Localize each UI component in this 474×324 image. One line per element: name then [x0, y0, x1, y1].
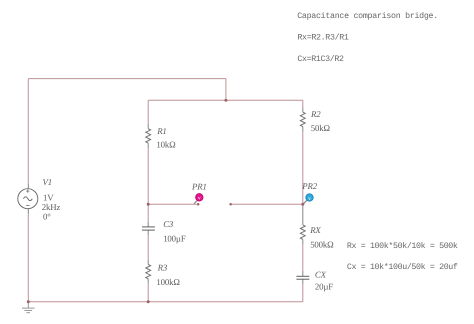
pin lead RX bottom	[302, 239, 304, 244]
svg-text:1V: 1V	[43, 193, 54, 203]
wire right branch RX to CX	[302, 245, 304, 272]
junction node left mid	[147, 203, 150, 206]
junction node ground rail left	[27, 300, 30, 303]
pin PR1 wire end	[197, 203, 200, 206]
resistor R3	[146, 264, 151, 278]
wire vertical connector into bridge top node	[225, 79, 227, 101]
svg-text:V1: V1	[43, 177, 52, 187]
pin lead R1 top	[147, 124, 149, 129]
pin PR2 wire end	[229, 203, 232, 206]
svg-text:100kΩ: 100kΩ	[156, 277, 180, 287]
svg-text:R1: R1	[156, 126, 166, 136]
svg-text:Cx=R1C3/R2: Cx=R1C3/R2	[297, 54, 344, 64]
probe PR2	[304, 194, 314, 204]
svg-text:Capacitance comparison bridge.: Capacitance comparison bridge.	[297, 11, 438, 21]
resistor R1	[146, 129, 151, 143]
pin lead CX bottom	[302, 279, 304, 284]
wire bridge top rail	[148, 99, 303, 101]
wire left branch segment C3 to R3	[147, 235, 149, 259]
wire right branch CX to bottom rail	[302, 284, 304, 301]
capacitor CX	[296, 276, 309, 279]
probe PR1	[194, 194, 203, 204]
svg-text:20µF: 20µF	[315, 282, 333, 292]
ground	[22, 302, 35, 313]
capacitor C3	[142, 227, 155, 230]
wire left vertical lower (source bottom to ground rail)	[27, 214, 29, 302]
resistor RX	[300, 225, 305, 239]
pin lead R3 top	[147, 259, 149, 264]
svg-text:10kΩ: 10kΩ	[156, 139, 176, 149]
junction node ground rail R3	[147, 300, 150, 303]
wire mid node to PR1 pin	[148, 203, 198, 205]
voltage source V1	[18, 189, 38, 209]
wire left branch segment mid node to C3	[147, 204, 149, 221]
svg-text:50kΩ: 50kΩ	[311, 123, 331, 133]
svg-text:500kΩ: 500kΩ	[310, 239, 334, 249]
pin lead RX top from mid junction	[302, 204, 304, 225]
wire left branch segment R1 to mid node	[147, 148, 149, 204]
wire right branch above R2	[302, 100, 304, 107]
junction node right mid	[301, 203, 304, 206]
pin lead V1 top	[27, 184, 29, 189]
svg-text:C3: C3	[163, 219, 174, 229]
wire bottom ground rail	[28, 301, 303, 303]
wire PR2 pin stub to right branch	[231, 203, 303, 205]
svg-text:v: v	[308, 196, 311, 202]
junction node at bridge top	[224, 99, 227, 102]
svg-text:100µF: 100µF	[163, 233, 186, 243]
svg-text:Rx = 100k*50k/10k = 500k: Rx = 100k*50k/10k = 500k	[347, 241, 458, 251]
svg-text:PR2: PR2	[301, 181, 317, 191]
svg-text:RX: RX	[309, 225, 321, 235]
pin lead V1 bottom	[27, 208, 29, 214]
wire right branch R2 to mid junction	[302, 132, 304, 205]
svg-text:Rx=R2.R3/R1: Rx=R2.R3/R1	[297, 33, 349, 43]
pin lead C3 top	[147, 222, 149, 227]
svg-text:Cx = 10k*100u/50k = 20uf: Cx = 10k*100u/50k = 20uf	[347, 262, 458, 272]
pin lead CX top	[302, 271, 304, 276]
wire left vertical upper (source top to top wire)	[27, 79, 29, 184]
wire left branch segment R3 to bottom rail	[147, 284, 149, 302]
svg-text:PR1: PR1	[191, 182, 207, 192]
svg-text:v: v	[198, 196, 201, 202]
pin lead R3 bottom	[147, 279, 149, 284]
pin lead R1 bottom	[147, 143, 149, 148]
svg-text:R3: R3	[157, 263, 168, 273]
svg-text:CX: CX	[315, 269, 327, 279]
svg-text:R2: R2	[310, 109, 321, 119]
wire top horizontal from source to bridge top connector	[28, 78, 226, 80]
svg-text:0°: 0°	[43, 212, 51, 222]
resistor R2	[300, 112, 305, 126]
pin lead C3 bottom	[147, 230, 149, 235]
pin lead R2 bottom	[302, 127, 304, 132]
wire left branch segment above R1	[147, 100, 149, 124]
pin lead R2 top	[302, 107, 304, 112]
